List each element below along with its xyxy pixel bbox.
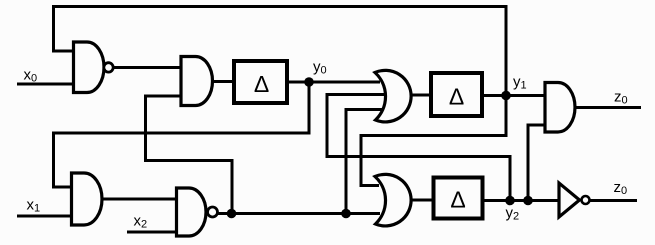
wire inverter output z0 xyxy=(590,199,637,202)
wire D1 output to node y0 and G5 input 1 xyxy=(287,81,380,84)
wire y1 feedback to G6 upper input xyxy=(361,97,506,186)
wire G5 output to delay D2 xyxy=(411,94,432,97)
wire y0 feedback to G3 upper input xyxy=(54,82,310,187)
svg-text:x0: x0 xyxy=(24,67,38,85)
wire input x0 xyxy=(17,83,74,86)
node y2 junction dot xyxy=(505,196,515,206)
wire G4 output line to G6 lower input xyxy=(218,212,380,215)
wire D3 output through node y2 to inverter xyxy=(483,199,560,202)
wire G7 output z0 xyxy=(575,106,641,109)
wire G1 output to G2 input xyxy=(113,66,181,69)
wire G6 output to delay D3 xyxy=(411,199,434,202)
OR gate G6 xyxy=(375,174,411,226)
svg-text:x1: x1 xyxy=(27,197,41,215)
wire top feedback net y1 to G1 input xyxy=(52,7,506,98)
delay element D2 xyxy=(431,73,482,116)
wire G2 output to delay D1 xyxy=(213,80,235,83)
wire G1 upper input elbow xyxy=(54,5,74,51)
node y1 junction dot xyxy=(501,91,511,101)
wire y2 feedback to G5 input 2 xyxy=(327,95,510,201)
svg-text:y1: y1 xyxy=(513,74,527,92)
svg-text:Δ: Δ xyxy=(254,71,269,97)
wire y2 branch to G7 input 2 xyxy=(528,125,545,201)
NAND gate G1 xyxy=(74,42,114,93)
AND gate G3 xyxy=(72,173,103,225)
inverter (NOT gate) xyxy=(559,183,590,217)
wire G3 output to G4 input xyxy=(102,198,177,201)
svg-text:Δ: Δ xyxy=(449,84,464,110)
delay element D3 xyxy=(434,178,483,219)
svg-text:z0: z0 xyxy=(614,179,628,197)
node y0 junction dot xyxy=(304,77,314,87)
OR gate G5 xyxy=(375,70,411,122)
svg-text:Δ: Δ xyxy=(450,187,465,213)
svg-text:y2: y2 xyxy=(506,205,520,223)
wire D2 output through node y1 to G7 input 1 xyxy=(482,94,545,97)
NAND gate G4 xyxy=(177,188,218,236)
svg-text:y0: y0 xyxy=(313,59,327,77)
AND gate G7 xyxy=(545,83,575,133)
AND gate G2 xyxy=(181,57,213,106)
wire G2 lower input from G4 output node xyxy=(146,96,233,214)
node junction dot on G4 output line xyxy=(341,209,351,219)
wire input x1 xyxy=(17,215,72,218)
svg-text:z0: z0 xyxy=(614,89,628,107)
node G4 output junction dot xyxy=(227,209,237,219)
delay element D1 xyxy=(234,61,287,103)
wire input x2 xyxy=(127,231,177,234)
node y2 second junction dot xyxy=(523,196,533,206)
svg-text:x2: x2 xyxy=(134,213,148,231)
wire branch to G5 input 3 xyxy=(346,110,382,214)
